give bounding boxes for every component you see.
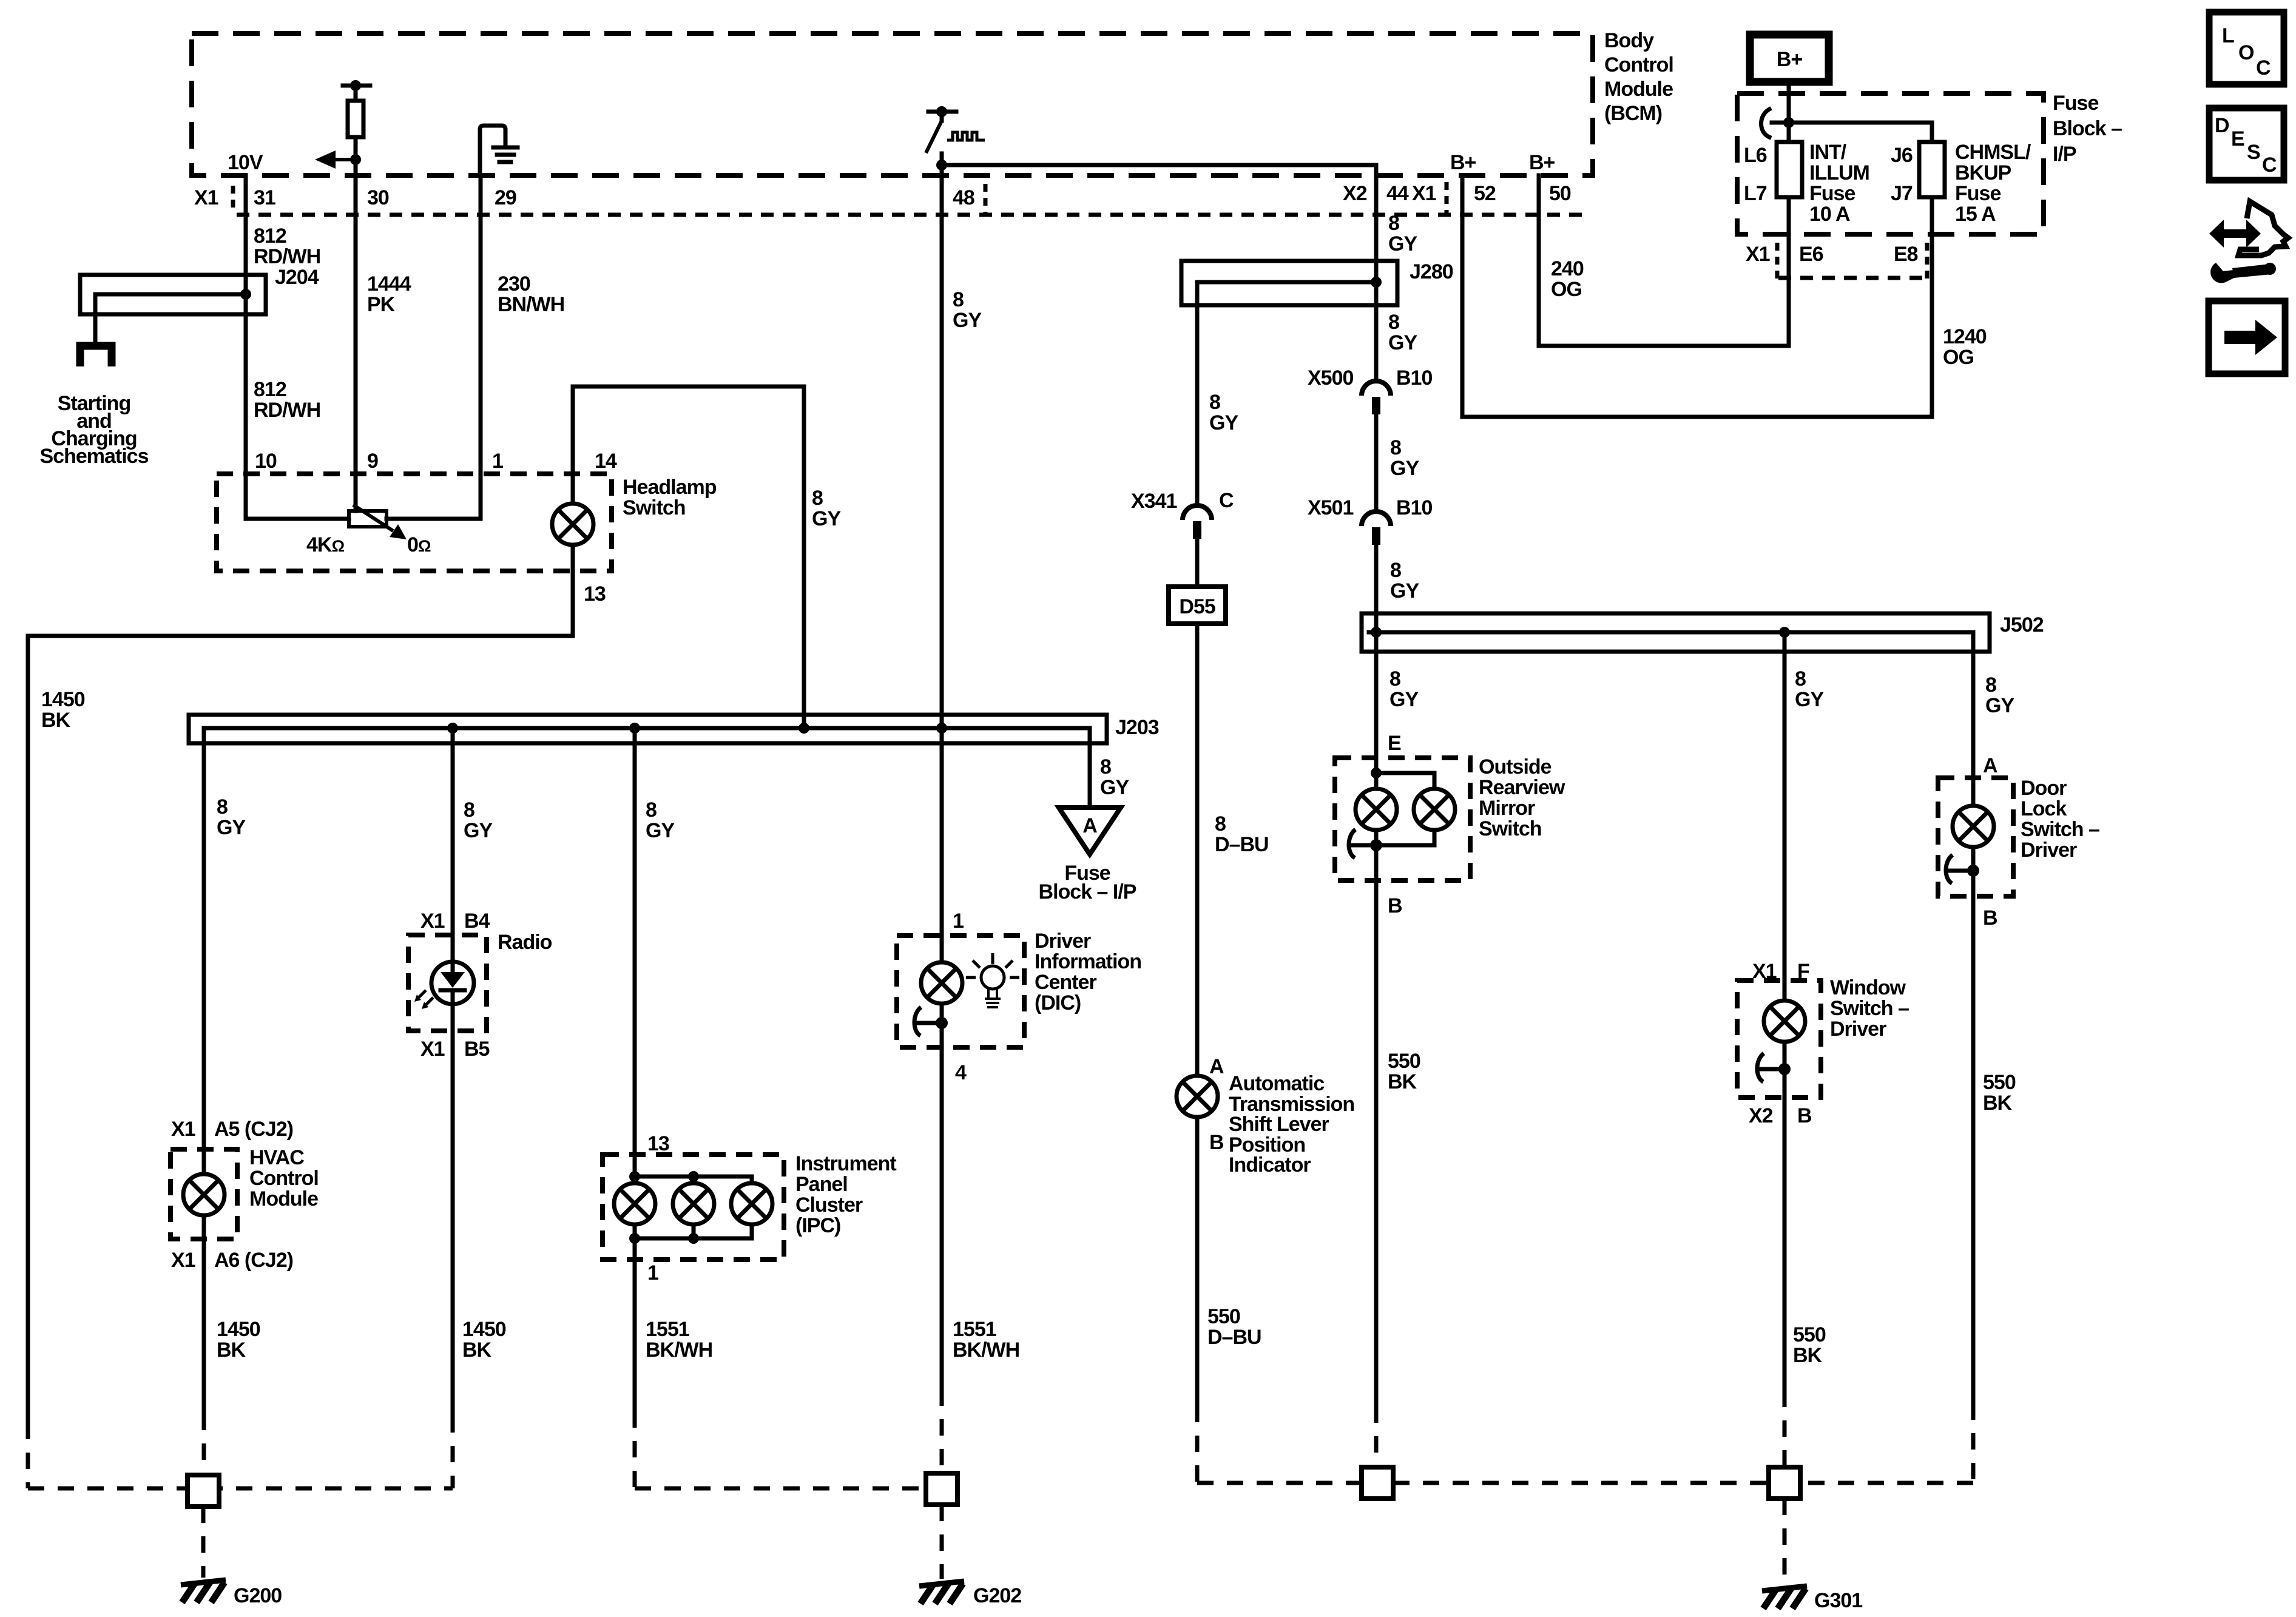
svg-text:GY: GY xyxy=(812,507,841,530)
svg-text:RD/WH: RD/WH xyxy=(254,399,320,422)
svg-text:Driver: Driver xyxy=(1830,1018,1886,1041)
svg-text:HVAC: HVAC xyxy=(249,1146,304,1169)
svg-text:OG: OG xyxy=(1551,278,1582,301)
connector X1 A6 (CJ2) xyxy=(171,1249,293,1272)
svg-text:1551: 1551 xyxy=(953,1318,996,1341)
splice J280 xyxy=(1181,260,1453,505)
wire CKT 1240 OG (pin 52 to fuse J7) xyxy=(1462,175,1932,417)
splice J204 xyxy=(80,266,319,342)
svg-text:Module: Module xyxy=(1604,78,1673,101)
svg-text:G202: G202 xyxy=(973,1584,1021,1607)
svg-text:GY: GY xyxy=(1795,688,1824,711)
svg-text:1: 1 xyxy=(647,1261,658,1284)
wire CKT 1450 BK (left, to G200) xyxy=(26,636,30,1423)
ground bus to G202 xyxy=(635,1487,926,1491)
svg-text:8: 8 xyxy=(1390,559,1401,582)
wire 8 GY from J203 to fuse block A xyxy=(1088,728,1092,808)
svg-text:(IPC): (IPC) xyxy=(795,1214,840,1237)
svg-text:Switch –: Switch – xyxy=(2021,818,2099,841)
wire 8 GY from BCM pin 48 down through J203 to DIC xyxy=(940,165,944,962)
svg-text:O: O xyxy=(2238,41,2254,64)
svg-text:8: 8 xyxy=(646,798,657,822)
svg-text:L6: L6 xyxy=(1744,144,1767,167)
inline connector (G200 harness) xyxy=(187,1475,219,1507)
svg-text:Shift Lever: Shift Lever xyxy=(1229,1113,1329,1136)
fuse CHMSL/BKUP 15 A (J6-J7) xyxy=(1919,142,1945,197)
lamp (headlamp switch backlight, pins 14-13) xyxy=(552,504,593,545)
svg-text:GY: GY xyxy=(1100,776,1129,799)
wire from switch pin 14 over to J203 xyxy=(573,387,804,728)
connector X1 B4 xyxy=(420,910,490,933)
svg-text:A: A xyxy=(1082,814,1097,837)
dimmer hook (DIC) xyxy=(914,1007,948,1036)
wire 8 GY to door lock switch xyxy=(1971,652,1976,806)
svg-text:Control: Control xyxy=(1604,53,1673,76)
svg-text:B: B xyxy=(1797,1104,1812,1127)
svg-text:B10: B10 xyxy=(1396,366,1432,390)
svg-text:8: 8 xyxy=(1209,391,1220,414)
svg-text:(DIC): (DIC) xyxy=(1035,991,1081,1014)
svg-text:A5 (CJ2): A5 (CJ2) xyxy=(214,1118,293,1141)
svg-text:30: 30 xyxy=(367,186,389,209)
icon forward arrow xyxy=(2209,301,2285,374)
svg-text:B: B xyxy=(1388,894,1402,917)
lamp (window switch backlight) xyxy=(1764,1001,1805,1042)
lamp bus (IPC bottom) xyxy=(635,1224,752,1260)
connector X1 pin F xyxy=(1752,960,1809,983)
svg-text:E: E xyxy=(2231,127,2244,150)
module box: Body Control Module (BCM) xyxy=(192,33,1593,175)
svg-text:550: 550 xyxy=(1207,1305,1240,1328)
svg-text:BK/WH: BK/WH xyxy=(953,1338,1019,1362)
svg-text:29: 29 xyxy=(495,186,516,209)
svg-text:4KΩ: 4KΩ xyxy=(306,533,344,556)
svg-text:L7: L7 xyxy=(1744,182,1767,205)
splice pack J502 xyxy=(1362,613,2044,652)
svg-text:10 A: 10 A xyxy=(1809,203,1850,226)
connector X500 B10 xyxy=(1308,366,1432,390)
wire 8 GY on X341 branch xyxy=(1209,391,1238,434)
headlamp switch box xyxy=(217,474,612,571)
current limiter hook (fuse block feed) xyxy=(1783,117,1794,128)
svg-text:GY: GY xyxy=(464,819,493,842)
svg-text:8: 8 xyxy=(812,487,823,510)
ground bus to G200 xyxy=(28,1416,453,1488)
svg-text:B4: B4 xyxy=(464,910,490,933)
svg-text:GY: GY xyxy=(1209,411,1238,434)
svg-text:GY: GY xyxy=(1390,579,1419,603)
svg-text:A6 (CJ2): A6 (CJ2) xyxy=(214,1249,293,1272)
lamp (A/T shift lever position indicator) xyxy=(1177,1076,1218,1117)
svg-text:Switch –: Switch – xyxy=(1830,997,1909,1020)
dimmer hook (window switch) xyxy=(1757,1053,1791,1082)
svg-text:230: 230 xyxy=(498,272,530,295)
svg-text:8: 8 xyxy=(1795,667,1806,690)
svg-text:Lock: Lock xyxy=(2021,797,2067,820)
LED (radio illumination) xyxy=(414,935,474,1031)
svg-text:BK: BK xyxy=(217,1338,246,1362)
svg-text:Rearview: Rearview xyxy=(1479,776,1565,799)
svg-text:Outside: Outside xyxy=(1479,755,1551,778)
svg-text:X341: X341 xyxy=(1131,490,1177,513)
off-page triangle A: Fuse Block - I/P xyxy=(1039,808,1136,903)
svg-text:Switch: Switch xyxy=(1479,817,1542,840)
svg-text:GY: GY xyxy=(646,819,675,842)
switch box: Outside Rearview Mirror Switch xyxy=(1335,758,1470,880)
svg-text:4: 4 xyxy=(955,1061,967,1084)
connector X341 pin C xyxy=(1131,489,1234,513)
svg-text:Information: Information xyxy=(1035,950,1141,973)
svg-text:X1: X1 xyxy=(1412,182,1436,205)
fuse block box: Fuse Block - I/P xyxy=(1737,93,2044,234)
svg-text:1: 1 xyxy=(492,450,503,473)
svg-text:44: 44 xyxy=(1386,182,1409,205)
svg-text:8: 8 xyxy=(953,288,964,311)
svg-text:GY: GY xyxy=(217,816,246,839)
svg-text:Block –: Block – xyxy=(2053,117,2122,140)
internal output arrow (BCM sensing node pin 30) xyxy=(315,150,361,169)
svg-text:D55: D55 xyxy=(1179,595,1215,618)
svg-text:X501: X501 xyxy=(1308,496,1353,519)
svg-text:G200: G200 xyxy=(234,1584,282,1607)
svg-text:X1: X1 xyxy=(420,1038,445,1061)
svg-text:48: 48 xyxy=(953,186,974,209)
svg-text:CHMSL/: CHMSL/ xyxy=(1955,141,2031,164)
svg-text:0Ω: 0Ω xyxy=(407,533,431,556)
resistor (BCM internal pull-up) xyxy=(343,80,370,175)
wire CKT 240 OG (pin 50 to fuse L7) xyxy=(1539,175,1789,346)
svg-text:B: B xyxy=(1209,1131,1224,1154)
svg-text:812: 812 xyxy=(254,224,286,248)
svg-text:X1: X1 xyxy=(194,186,218,209)
svg-text:Fuse: Fuse xyxy=(2053,92,2098,115)
svg-text:8: 8 xyxy=(1985,673,1996,697)
wire 8 GY to IPC xyxy=(633,728,637,1183)
svg-text:BK: BK xyxy=(1983,1092,2013,1115)
svg-text:INT/: INT/ xyxy=(1809,141,1847,164)
connector row X1/X2 under BCM xyxy=(237,213,1586,217)
svg-text:X1: X1 xyxy=(1746,243,1770,266)
svg-text:550: 550 xyxy=(1983,1071,2016,1094)
inline connector (G202 harness) xyxy=(926,1473,957,1505)
svg-text:Driver: Driver xyxy=(1035,930,1091,953)
svg-text:J203: J203 xyxy=(1115,716,1159,739)
svg-text:G301: G301 xyxy=(1814,1589,1862,1612)
inline connector (G301 harness) xyxy=(1769,1467,1800,1499)
svg-text:Control: Control xyxy=(249,1167,319,1190)
lamp mirror switch 1 xyxy=(1356,789,1397,830)
svg-text:8: 8 xyxy=(1388,212,1399,235)
module box: HVAC Control Module xyxy=(171,1149,237,1239)
potentiometer 4K ohm (headlamp switch dimmer) xyxy=(246,474,431,556)
svg-text:Module: Module xyxy=(249,1187,318,1210)
svg-text:J6: J6 xyxy=(1891,144,1913,167)
svg-text:8: 8 xyxy=(1100,755,1111,778)
svg-text:Radio: Radio xyxy=(498,931,552,954)
wire 8 GY to window switch xyxy=(1783,632,1787,1001)
svg-text:I/P: I/P xyxy=(2053,143,2076,166)
light bulb icon (DIC) xyxy=(966,953,1019,1007)
svg-text:B+: B+ xyxy=(1450,151,1476,174)
lamp IPC 2 xyxy=(673,1183,714,1224)
connector X1 B5 xyxy=(420,1038,490,1061)
svg-text:BN/WH: BN/WH xyxy=(498,293,564,316)
svg-text:550: 550 xyxy=(1793,1323,1826,1346)
svg-text:C: C xyxy=(2256,56,2271,79)
svg-text:240: 240 xyxy=(1551,257,1584,280)
icon DESC xyxy=(2209,108,2284,180)
svg-text:E6: E6 xyxy=(1799,243,1823,266)
connector row X1 E6/E8 under fuse block xyxy=(1746,243,1918,266)
svg-text:Automatic: Automatic xyxy=(1229,1072,1324,1095)
lamp (door lock switch backlight) xyxy=(1953,806,1994,847)
svg-text:E8: E8 xyxy=(1894,243,1918,266)
svg-text:X1: X1 xyxy=(171,1249,195,1272)
svg-text:Mirror: Mirror xyxy=(1479,797,1535,820)
svg-text:BK: BK xyxy=(41,709,71,732)
svg-text:Headlamp: Headlamp xyxy=(623,476,717,499)
svg-text:8: 8 xyxy=(1390,436,1401,459)
svg-text:1450: 1450 xyxy=(217,1318,260,1341)
svg-text:B+: B+ xyxy=(1529,151,1555,174)
svg-text:BK: BK xyxy=(1388,1070,1417,1093)
module box: Driver Information Center (DIC) xyxy=(897,936,1024,1047)
module box: Radio xyxy=(408,935,487,1031)
switch box: Door Lock Switch - Driver xyxy=(1938,778,2013,896)
svg-text:10V: 10V xyxy=(228,151,263,174)
ground G200 xyxy=(181,1580,226,1602)
svg-text:50: 50 xyxy=(1549,182,1571,205)
lamp (DIC backlight) xyxy=(921,962,962,1004)
svg-text:D–BU: D–BU xyxy=(1215,833,1269,856)
svg-text:GY: GY xyxy=(1388,232,1417,255)
svg-text:B5: B5 xyxy=(464,1038,490,1061)
connector X2 pin B xyxy=(1749,1104,1812,1127)
wire 8 GY to mirror switch xyxy=(1389,667,1419,711)
svg-text:1444: 1444 xyxy=(367,272,411,295)
svg-text:1450: 1450 xyxy=(462,1318,506,1341)
svg-text:X1: X1 xyxy=(171,1118,195,1141)
svg-text:C: C xyxy=(1219,489,1234,512)
dimmer hook (mirror switch) xyxy=(1349,829,1382,858)
lamp bus (IPC top) xyxy=(635,1176,752,1183)
wire from BCM driver to pin 44 and down the main 8 GY run xyxy=(942,165,1376,381)
svg-text:L: L xyxy=(2222,24,2234,47)
svg-text:8: 8 xyxy=(1215,812,1226,836)
svg-text:GY: GY xyxy=(953,309,982,332)
svg-text:8: 8 xyxy=(1389,667,1400,690)
svg-text:13: 13 xyxy=(647,1132,669,1155)
lamp IPC 3 xyxy=(731,1183,772,1224)
svg-text:J502: J502 xyxy=(2000,613,2044,636)
svg-text:B10: B10 xyxy=(1396,496,1432,519)
switch Q (BCM internal PWM driver for pin 48) xyxy=(926,106,985,175)
svg-text:8: 8 xyxy=(464,798,474,822)
svg-text:GY: GY xyxy=(1389,688,1419,711)
svg-text:GY: GY xyxy=(1390,457,1419,480)
svg-text:15 A: 15 A xyxy=(1955,203,1996,226)
svg-text:J7: J7 xyxy=(1891,182,1913,205)
svg-text:52: 52 xyxy=(1474,182,1496,205)
svg-text:BKUP: BKUP xyxy=(1955,161,2011,184)
svg-text:A: A xyxy=(1209,1055,1224,1078)
svg-text:Fuse: Fuse xyxy=(1809,182,1855,205)
svg-text:Center: Center xyxy=(1035,971,1096,994)
inline connector (mirror switch ground run) xyxy=(1362,1467,1393,1499)
svg-text:X500: X500 xyxy=(1308,366,1353,390)
svg-text:C: C xyxy=(2262,154,2277,177)
wire 8 GY to HVAC xyxy=(202,728,206,1149)
connector X1 A5 (CJ2) xyxy=(171,1118,293,1141)
svg-text:Block – I/P: Block – I/P xyxy=(1039,880,1136,903)
svg-text:9: 9 xyxy=(367,450,378,473)
diode D55 xyxy=(1169,587,1226,624)
svg-text:812: 812 xyxy=(254,378,286,401)
svg-text:10: 10 xyxy=(255,450,277,473)
connector X501 B10 xyxy=(1308,496,1432,519)
svg-text:X2: X2 xyxy=(1749,1104,1773,1127)
wire 8 GY to Radio xyxy=(451,728,455,935)
dimmer hook (door lock switch) xyxy=(1946,855,1979,883)
splice pack J203 xyxy=(189,715,1159,743)
icon LOC xyxy=(2209,12,2284,84)
svg-text:BK: BK xyxy=(1793,1344,1823,1367)
svg-text:RD/WH: RD/WH xyxy=(254,245,320,268)
fuse INT/ILLUM 10 A (L6-L7) xyxy=(1777,142,1802,197)
svg-text:1450: 1450 xyxy=(41,688,85,711)
svg-text:Switch: Switch xyxy=(623,496,686,519)
svg-text:GY: GY xyxy=(1388,331,1417,354)
switch box: Window Switch - Driver xyxy=(1737,981,1821,1098)
svg-text:13: 13 xyxy=(584,582,606,606)
svg-text:A: A xyxy=(1983,754,1997,777)
svg-text:Door: Door xyxy=(2021,777,2067,800)
svg-text:1551: 1551 xyxy=(646,1318,689,1341)
svg-text:D: D xyxy=(2215,114,2229,137)
svg-text:Indicator: Indicator xyxy=(1229,1153,1311,1176)
ground G301 xyxy=(1762,1586,1807,1609)
svg-text:1: 1 xyxy=(953,910,964,933)
svg-text:BK: BK xyxy=(462,1338,492,1362)
svg-text:BK/WH: BK/WH xyxy=(646,1338,712,1362)
wire CKT 1444 PK (pin 30 to headlamp switch 9) xyxy=(354,175,358,511)
svg-text:Fuse: Fuse xyxy=(1955,182,2001,205)
svg-text:J204: J204 xyxy=(275,266,319,289)
svg-text:ILLUM: ILLUM xyxy=(1809,161,1869,184)
svg-text:Window: Window xyxy=(1830,976,1906,999)
icon service hood/arrow/wrench xyxy=(2209,201,2288,283)
wire CKT 812 RD/WH (pin 31 to headlamp switch 10) xyxy=(244,175,248,474)
svg-text:Instrument: Instrument xyxy=(795,1152,896,1175)
svg-text:(BCM): (BCM) xyxy=(1604,102,1662,125)
svg-text:OG: OG xyxy=(1943,346,1974,369)
svg-text:PK: PK xyxy=(367,293,396,316)
svg-text:Schematics: Schematics xyxy=(40,445,149,468)
svg-text:X1: X1 xyxy=(420,910,445,933)
lamp mirror switch 2 xyxy=(1414,789,1455,830)
svg-text:GY: GY xyxy=(1985,694,2014,717)
svg-text:550: 550 xyxy=(1388,1050,1420,1073)
ground symbol (BCM internal) xyxy=(480,126,518,175)
battery feed B+ terminal xyxy=(1750,35,1829,82)
svg-text:S: S xyxy=(2247,141,2260,164)
svg-text:B+: B+ xyxy=(1777,48,1803,71)
svg-text:8: 8 xyxy=(1388,311,1399,334)
svg-text:E: E xyxy=(1388,732,1401,755)
svg-text:Cluster: Cluster xyxy=(795,1193,863,1217)
svg-text:J280: J280 xyxy=(1410,260,1453,283)
svg-text:Driver: Driver xyxy=(2021,839,2077,862)
svg-text:31: 31 xyxy=(254,186,275,209)
module box: Instrument Panel Cluster (IPC) xyxy=(603,1155,784,1260)
svg-text:Body: Body xyxy=(1604,29,1654,52)
ground G202 xyxy=(919,1581,964,1604)
off-page fork to Starting and Charging Schematics xyxy=(40,342,149,468)
svg-text:8: 8 xyxy=(217,795,228,819)
svg-text:D–BU: D–BU xyxy=(1207,1326,1261,1349)
svg-text:B: B xyxy=(1983,906,1997,930)
lamp (HVAC backlight) xyxy=(183,1174,225,1215)
svg-text:14: 14 xyxy=(595,450,617,473)
svg-text:1240: 1240 xyxy=(1943,325,1987,348)
svg-text:X2: X2 xyxy=(1343,182,1367,205)
wire CKT 230 BN/WH (pin 29 to headlamp switch 1) xyxy=(387,175,481,519)
svg-text:Panel: Panel xyxy=(795,1173,848,1196)
lamp IPC 1 xyxy=(614,1183,655,1224)
